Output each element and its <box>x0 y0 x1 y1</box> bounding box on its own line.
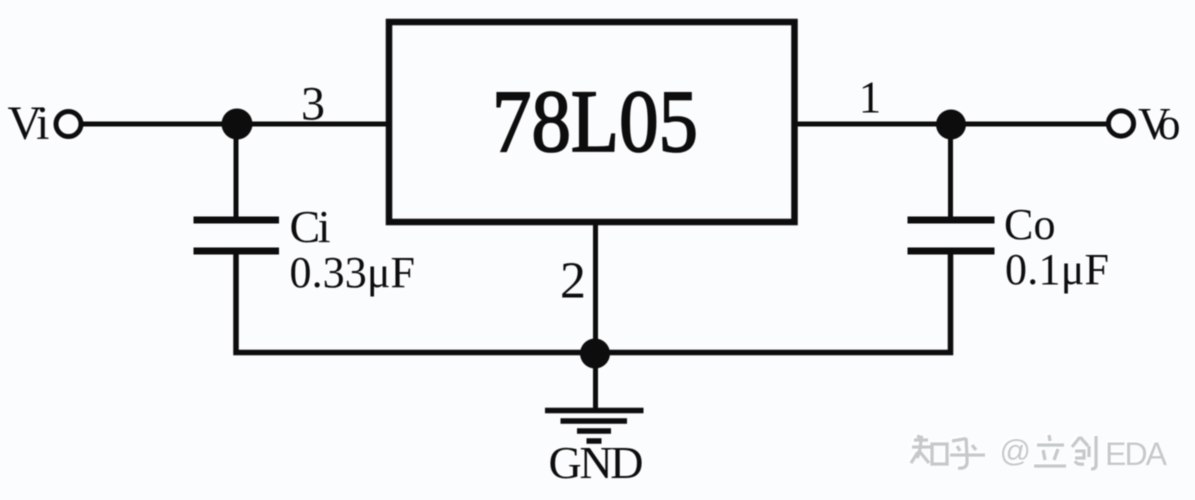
svg-text:@: @ <box>1000 433 1031 468</box>
svg-text:3: 3 <box>301 78 325 131</box>
svg-text:2: 2 <box>560 253 586 310</box>
svg-text:1: 1 <box>859 73 882 123</box>
svg-text:GND: GND <box>549 437 644 488</box>
svg-text:78L05: 78L05 <box>492 73 698 171</box>
svg-text:EDA: EDA <box>1105 436 1168 472</box>
svg-text:0.1μF: 0.1μF <box>1005 245 1109 294</box>
svg-text:Vo: Vo <box>1138 99 1181 149</box>
svg-text:0.33μF: 0.33μF <box>290 248 416 297</box>
svg-text:Vi: Vi <box>8 97 50 150</box>
svg-text:Co: Co <box>1004 200 1056 249</box>
svg-text:Ci: Ci <box>290 201 331 252</box>
